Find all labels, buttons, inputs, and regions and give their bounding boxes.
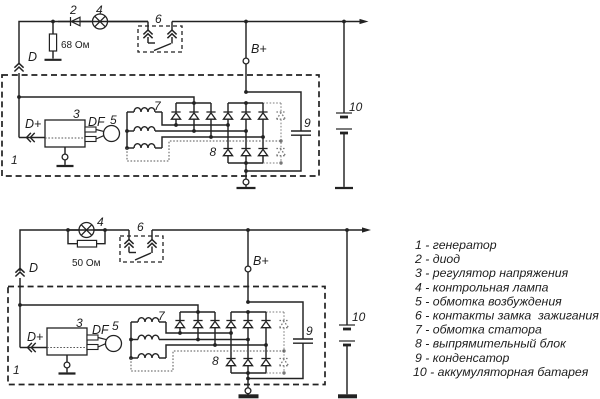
top wire: phase column 2	[245, 119, 247, 148]
top rectifier: auxiliary diode bus	[176, 102, 211, 104]
top regulator 3: internal dotted feed-through	[45, 137, 85, 139]
svg-text:5: 5	[110, 113, 117, 127]
bottom regulator 3: body box	[47, 328, 87, 355]
top lamp 4: control lamp circle with cross	[93, 14, 108, 29]
top ground: battery earth bar	[335, 187, 353, 189]
top node: junction dot at B+ branch	[244, 20, 248, 24]
bottom node: phase taps on main columns	[229, 331, 233, 335]
svg-text:4 - контрольная лампа: 4 - контрольная лампа	[415, 280, 549, 294]
top aux diode A3	[210, 103, 212, 112]
bottom node: stator bus dot phase3	[129, 356, 133, 360]
top ground: generator earth bar	[237, 187, 256, 189]
bottom node D: chevron marker	[15, 268, 24, 276]
bottom field winding 5: rotor circle	[106, 336, 122, 352]
bottom switch 6: left contact chevrons and stem	[124, 240, 133, 248]
top capacitor 9: plates	[291, 130, 311, 132]
bottom arrow: rail continuation arrowhead	[362, 227, 371, 232]
bottom brush leads to field winding	[98, 338, 106, 340]
top stator 7: phase coil 2	[127, 130, 134, 132]
top node: dotted neutral tap	[279, 139, 282, 142]
top rectifier 8: dotted bus extension	[263, 102, 281, 104]
top node: junction dot at capacitor return	[244, 169, 248, 173]
top rectifier diode extra positive (dotted)	[280, 103, 282, 112]
svg-text:7: 7	[158, 309, 166, 323]
bottom node: junction dot at B+ tap	[246, 300, 250, 304]
top wire: dotted neutral link from star point	[127, 141, 281, 161]
bottom regulator 3: output pin lower	[87, 345, 98, 350]
bottom rectifier 8: dotted negative bus extension	[266, 372, 284, 374]
bottom rectifier diode P2 (positive)	[247, 312, 249, 321]
top switch 6: movable blade	[154, 44, 171, 51]
top node: dotted negative bus end	[279, 161, 282, 164]
top diode 2: cathode bar and triangle	[70, 17, 72, 26]
top node D+: chevron marker	[27, 133, 35, 142]
top node: B+ bus junction dot	[244, 101, 248, 105]
svg-text:3: 3	[76, 316, 83, 330]
top rectifier diode P3 (positive)	[262, 103, 264, 112]
top ground: regulator earth with terminal circle	[64, 147, 66, 154]
top wire: D to auxiliary rectifier bus	[19, 97, 194, 103]
svg-text:10 - аккумуляторная батарея: 10 - аккумуляторная батарея	[413, 365, 589, 379]
svg-text:3: 3	[73, 107, 80, 121]
bottom wire: rectifier output to ground terminal	[247, 373, 249, 388]
svg-text:4: 4	[96, 3, 103, 17]
top wire: phase column 1	[227, 119, 229, 148]
bottom node: junction dot at capacitor return	[246, 377, 250, 381]
bottom rectifier diode P3 (positive)	[265, 312, 267, 321]
svg-text:2 - диод: 2 - диод	[414, 252, 460, 266]
svg-text:1: 1	[13, 363, 20, 377]
bottom wire: dotted neutral column	[283, 328, 285, 359]
bottom wire: phase line 2	[159, 339, 248, 341]
top brush leads to field winding	[96, 130, 104, 132]
top switch 6: right contact chevrons and stem	[167, 30, 176, 38]
bottom node D+: chevron marker	[28, 343, 36, 352]
top switch 6: left contact drop wire	[147, 22, 149, 31]
top wire: D+ lead into regulator	[19, 137, 45, 139]
top wire: dotted neutral column	[280, 119, 282, 148]
bottom wire: feed rail from D corner to ignition switch	[20, 230, 129, 271]
bottom switch 6: dashed box of ignition contacts	[120, 236, 163, 262]
svg-text:9 - конденсатор: 9 - конденсатор	[415, 351, 510, 365]
bottom wire: phase column 3	[265, 328, 267, 359]
svg-text:D+: D+	[25, 117, 41, 131]
bottom node: aux bus junction dot	[196, 310, 200, 314]
svg-text:7: 7	[154, 99, 162, 113]
bottom stator 7: phase coil 3	[131, 357, 138, 359]
top stator 7: phase coil 1	[127, 111, 134, 113]
top aux diode A2	[193, 103, 195, 112]
top switch 6: right contact drop wire	[171, 22, 173, 31]
bottom wire: D down into box to junction	[19, 278, 21, 348]
top node: junction dot at resistor tap	[51, 20, 55, 24]
bottom wire: rail from switch to battery and arrow end	[152, 229, 362, 231]
top wire: lamp to switch	[108, 21, 149, 23]
bottom rectifier: auxiliary diode bus	[180, 311, 215, 313]
bottom switch 6: right contact chevrons and stem	[147, 240, 156, 248]
svg-text:10: 10	[349, 100, 363, 114]
top node: aux bus junction dot	[192, 101, 196, 105]
top circuit: dashed enclosure box 1 (generator)	[2, 75, 319, 176]
top node: stator bus dot phase3	[125, 146, 129, 150]
bottom regulator 3: internal dotted feed-through	[47, 347, 87, 349]
top regulator 3: output pin lower	[85, 137, 96, 142]
bottom battery 10: negative lead	[346, 345, 348, 394]
bottom battery 10: cell plates	[339, 324, 355, 326]
bottom node: junction dots at lamp branch	[66, 228, 70, 232]
svg-text:7 - обмотка статора: 7 - обмотка статора	[415, 323, 542, 337]
bottom rectifier diode N2 (negative)	[243, 359, 252, 366]
bottom switch 6: right contact drop wire	[151, 230, 153, 240]
bottom node: stator bus dot phase2	[129, 338, 133, 342]
bottom node: junction dot on D wire	[18, 303, 22, 307]
top node B+: branch wire with terminal circle	[245, 22, 247, 59]
top wire: phase line 2	[155, 130, 246, 132]
svg-text:DF: DF	[92, 323, 110, 337]
svg-text:9: 9	[304, 116, 311, 130]
top rectifier 8: negative bus	[228, 162, 263, 164]
top rectifier 8: dotted negative bus extension	[263, 162, 281, 164]
svg-text:8: 8	[210, 145, 217, 159]
bottom rectifier diode extra positive (dotted)	[283, 312, 285, 321]
bottom capacitor 9: plates	[293, 338, 313, 340]
top capacitor 9: ground side lead	[246, 135, 301, 171]
bottom wire: D to auxiliary rectifier bus	[20, 305, 198, 312]
top resistor 68 Om: leads	[52, 22, 54, 35]
top node: negative bus junction	[244, 161, 248, 165]
bottom circuit: dashed enclosure box 1 (generator)	[8, 287, 325, 385]
bottom rectifier diode P1 (positive)	[230, 312, 232, 321]
top rectifier diode N2 (negative)	[241, 149, 250, 156]
top stator 7: phase coil 3	[127, 147, 134, 149]
svg-text:9: 9	[306, 324, 313, 338]
bottom wire: phase column 2	[247, 328, 249, 359]
top arrow: rail continuation arrowhead	[360, 19, 369, 24]
svg-text:8 - выпрямительный блок: 8 - выпрямительный блок	[415, 337, 567, 351]
bottom ground: generator earth bar (thick)	[239, 394, 259, 398]
bottom regulator 3: output pin upper	[87, 335, 98, 340]
bottom rectifier 8: negative bus	[231, 372, 266, 374]
bottom rectifier diode extra negative (dotted)	[279, 359, 288, 366]
bottom node: dotted negative bus end	[282, 371, 285, 374]
top ground: under resistor 68 Om	[45, 59, 62, 61]
bottom node: phase taps on aux diodes	[178, 331, 182, 335]
svg-text:B+: B+	[253, 254, 269, 268]
top wire: rectifier output to ground terminal	[245, 163, 247, 179]
bottom wire: phase column 1	[230, 328, 232, 359]
svg-text:3 - регулятор напряжения: 3 - регулятор напряжения	[415, 266, 569, 280]
svg-text:10: 10	[352, 310, 366, 324]
bottom stator 7: phase coil 2	[131, 339, 138, 341]
bottom capacitor 9: feed from B+	[248, 302, 303, 339]
svg-text:5: 5	[112, 319, 119, 333]
bottom lamp 4: control lamp circle with cross	[79, 223, 94, 238]
bottom node: negative bus junction	[246, 371, 250, 375]
bottom ground: regulator earth with terminal circle	[66, 355, 68, 362]
top node: junction dot at B+ tap	[244, 90, 248, 94]
svg-text:6: 6	[137, 220, 144, 234]
top wire: D down into box to junction	[18, 73, 20, 138]
top node D: chevron marker on generator output	[14, 63, 23, 71]
bottom node: junction dot at B+ branch	[246, 228, 250, 232]
top rectifier diode extra negative (dotted)	[276, 149, 285, 156]
top wire: phase line 1	[162, 112, 228, 125]
top switch 6: left contact chevrons and stem	[143, 30, 152, 38]
bottom aux diode A3	[214, 312, 216, 321]
bottom switch 6: left contact drop wire	[128, 230, 130, 240]
top rectifier 8: main positive bus	[228, 102, 263, 104]
top regulator 3: output pin upper	[85, 127, 96, 132]
svg-text:8: 8	[212, 354, 219, 368]
bottom node: junction dot at battery branch	[345, 228, 349, 232]
top rectifier diode P1 (positive)	[227, 103, 229, 112]
svg-text:5 - обмотка возбуждения: 5 - обмотка возбуждения	[415, 294, 562, 308]
bottom battery 10: positive lead	[346, 230, 348, 325]
svg-text:50 Ом: 50 Ом	[72, 258, 101, 269]
top capacitor 9: feed from B+	[246, 92, 301, 131]
bottom stator 7: winding bus	[130, 322, 132, 358]
bottom node B+: branch wire with terminal circle	[247, 230, 249, 266]
top rectifier diode N1 (negative)	[223, 149, 232, 156]
top node: junction dot on D wire	[17, 95, 21, 99]
top resistor 68 Om: body	[49, 34, 56, 51]
top node: phase taps on main columns	[226, 123, 230, 127]
bottom wire: lamp leads	[68, 229, 79, 231]
svg-text:68 Ом: 68 Ом	[61, 40, 90, 51]
bottom resistor 50 Om: parallel branch wires	[68, 230, 77, 244]
top diode 2: leads	[58, 21, 71, 23]
bottom switch 6: movable blade	[135, 253, 151, 260]
svg-text:B+: B+	[251, 42, 267, 56]
bottom capacitor 9: ground side lead	[248, 343, 303, 378]
svg-text:D: D	[28, 50, 37, 64]
svg-text:6 - контакты замка зажигания: 6 - контакты замка зажигания	[415, 309, 599, 323]
bottom aux diode A1	[179, 312, 181, 321]
bottom node: B+ bus junction dot	[246, 310, 250, 314]
svg-text:4: 4	[97, 215, 104, 229]
bottom rectifier diode N1 (negative)	[226, 359, 235, 366]
bottom rectifier diode N3 (negative)	[261, 359, 270, 366]
bottom ground: battery earth bar (thick)	[338, 394, 357, 398]
top regulator 3: body box	[45, 120, 85, 147]
top stator 7: winding bus	[126, 112, 128, 148]
bottom resistor 50 Om: body	[77, 240, 96, 247]
top battery 10: positive lead	[343, 22, 345, 114]
svg-text:6: 6	[155, 12, 162, 26]
bottom node: dotted neutral tap	[282, 349, 285, 352]
svg-text:1 - генератор: 1 - генератор	[415, 238, 497, 252]
top wire: phase column 3	[262, 119, 264, 148]
bottom wire: phase line 3	[166, 345, 266, 358]
bottom wire: D+ lead into regulator	[20, 347, 47, 349]
top wire: rail from switch to battery and arrow end	[172, 21, 360, 23]
top wire: feed rail from D corner to ignition switch	[19, 22, 148, 64]
bottom aux diode A2	[197, 312, 199, 321]
top battery 10: negative lead	[343, 133, 345, 187]
top battery 10: cell plates	[336, 112, 352, 114]
svg-text:1: 1	[11, 153, 18, 167]
svg-text:DF: DF	[88, 115, 106, 129]
svg-text:2: 2	[69, 3, 77, 17]
top field winding 5: rotor circle	[104, 126, 120, 142]
bottom wire: phase line 1	[166, 322, 231, 333]
top node: junction dot at battery branch	[342, 20, 346, 24]
top rectifier diode P2 (positive)	[245, 103, 247, 112]
top switch 6: dashed box of ignition contacts	[138, 26, 182, 52]
bottom rectifier 8: main positive bus	[231, 311, 266, 313]
svg-text:D: D	[29, 261, 38, 275]
top node: stator bus dot phase2	[125, 129, 129, 133]
bottom rectifier 8: dotted bus extension	[266, 311, 284, 313]
bottom stator 7: phase coil 1	[131, 321, 138, 323]
top aux diode A1	[175, 103, 177, 112]
top ground: generator case terminal circle	[243, 179, 249, 185]
svg-text:D+: D+	[27, 330, 43, 344]
bottom wire: dotted neutral link from star point	[131, 351, 284, 371]
top wire: phase line 3	[162, 137, 263, 148]
top rectifier diode N3 (negative)	[258, 149, 267, 156]
top node: phase taps on aux diodes	[174, 123, 178, 127]
bottom ground: generator case terminal circle	[245, 388, 251, 394]
